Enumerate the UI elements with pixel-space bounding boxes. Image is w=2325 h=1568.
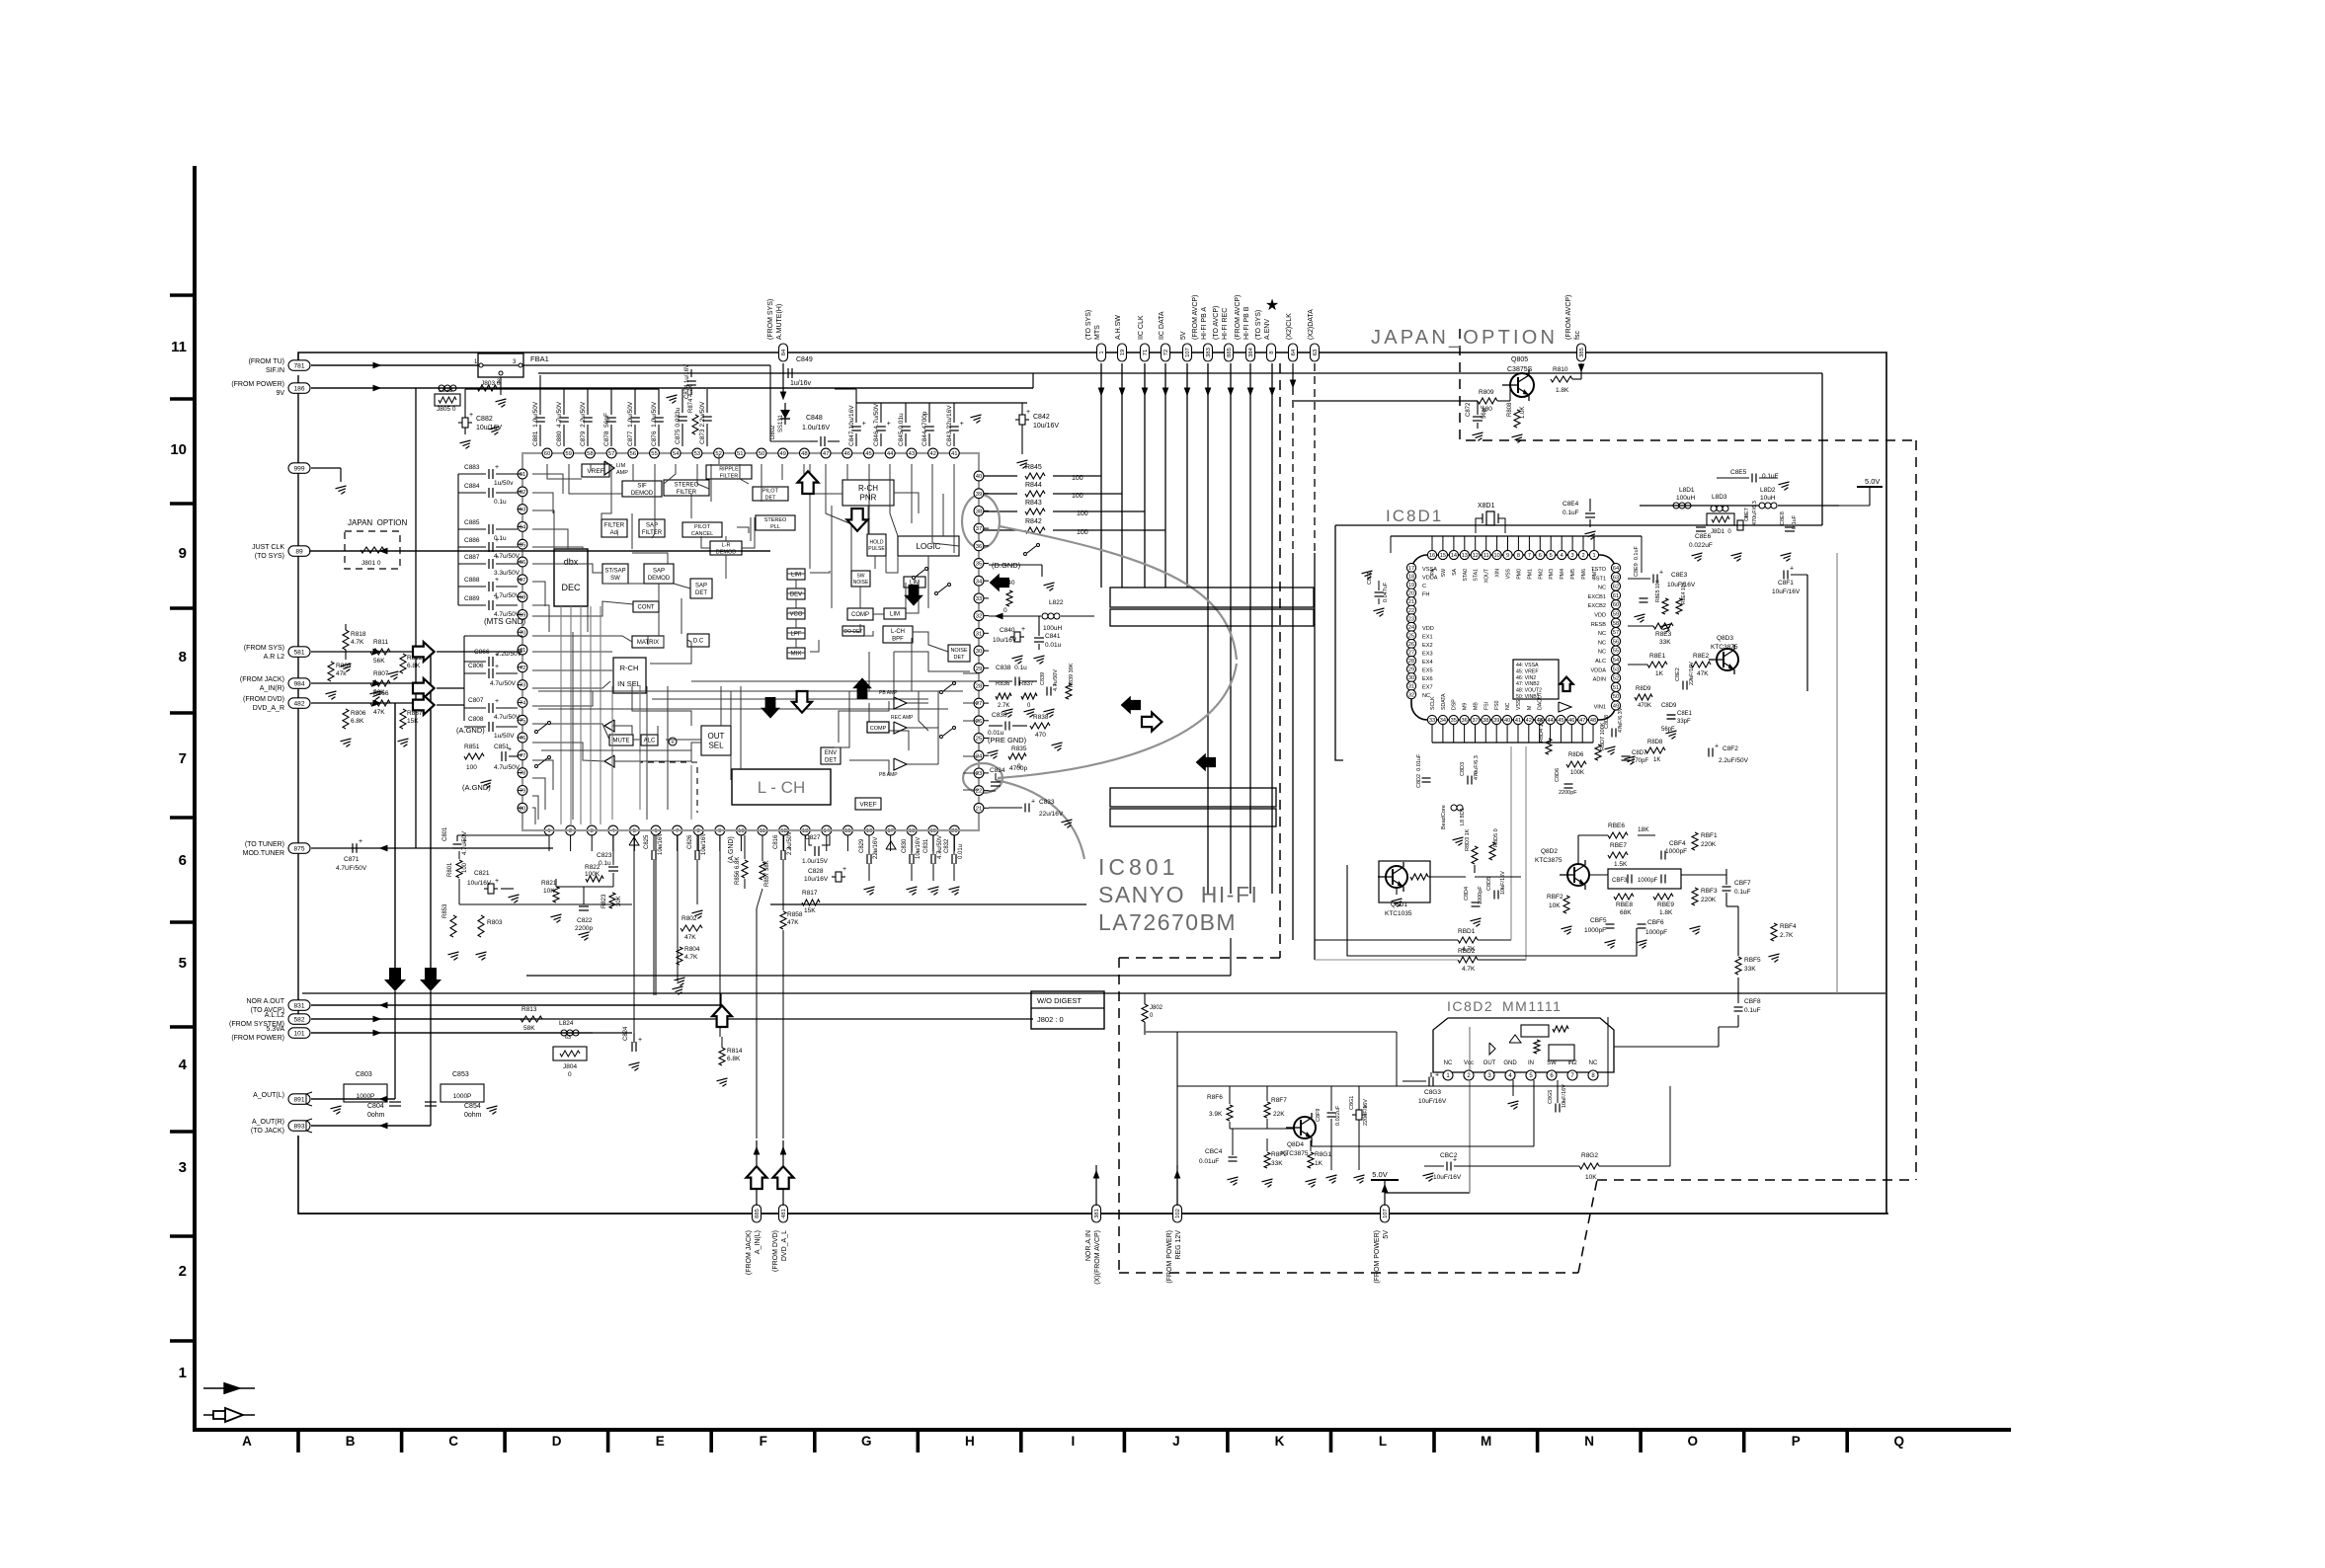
wire pin stub	[984, 807, 989, 809]
svg-text:REG 12V: REG 12V	[1175, 1230, 1182, 1260]
svg-text:C886: C886	[464, 537, 480, 544]
svg-text:47K: 47K	[787, 919, 799, 926]
svg-text:10u/16V: 10u/16V	[993, 637, 1017, 644]
svg-text:30: 30	[976, 649, 983, 655]
IC801 pin 63	[518, 505, 527, 514]
block ENV DET	[821, 747, 841, 764]
svg-text:60: 60	[1613, 602, 1619, 608]
svg-text:75: 75	[520, 718, 526, 724]
connector 101 5.3VA	[288, 1028, 310, 1039]
svg-text:+: +	[887, 421, 891, 428]
svg-text:+: +	[495, 537, 499, 544]
IC801 pin 74	[518, 698, 527, 708]
svg-text:37: 37	[976, 526, 983, 532]
wire pin stub	[518, 596, 522, 598]
svg-text:C8G5: C8G5	[1548, 1090, 1554, 1104]
ground	[988, 750, 999, 753]
transistor Q8D1	[1379, 861, 1430, 902]
hollow arrow 885	[747, 1166, 767, 1189]
resistor R844	[1025, 491, 1045, 497]
svg-text:44: 44	[887, 451, 894, 457]
svg-text:22uF/16V: 22uF/16V	[1689, 662, 1695, 685]
wire	[859, 587, 861, 608]
inductor L823	[439, 385, 444, 391]
svg-text:885: 885	[1227, 348, 1233, 357]
svg-text:R838: R838	[1033, 714, 1049, 721]
wire	[1053, 510, 1145, 512]
ground	[341, 739, 352, 742]
svg-text:R840: R840	[1000, 580, 1015, 587]
svg-text:(FROM AVCP): (FROM AVCP)	[1192, 295, 1199, 340]
ruler tick bottom	[1742, 1430, 1746, 1452]
svg-text:47K: 47K	[373, 709, 385, 716]
capacitor C8E7	[1737, 520, 1743, 530]
svg-text:11: 11	[171, 339, 187, 355]
svg-text:MOD.TUNER: MOD.TUNER	[243, 850, 284, 857]
svg-text:10uH: 10uH	[1760, 495, 1776, 502]
svg-text:27: 27	[976, 701, 983, 707]
svg-text:L8D3: L8D3	[1712, 494, 1727, 501]
svg-text:NOISE: NOISE	[853, 580, 869, 586]
svg-text:(TO TUNER): (TO TUNER)	[245, 841, 284, 848]
svg-text:C801: C801	[442, 826, 448, 841]
wire pin stub	[518, 789, 522, 791]
svg-text:C874 1u/16V: C874 1u/16V	[684, 364, 690, 399]
IC8D1 pin 38	[1482, 715, 1490, 724]
svg-text:101: 101	[293, 1031, 304, 1038]
wire	[674, 584, 690, 588]
svg-text:+: +	[495, 554, 499, 561]
svg-text:10uF/16V: 10uF/16V	[1772, 588, 1801, 595]
svg-text:NC: NC	[1598, 631, 1606, 637]
IC801 pin 25	[974, 734, 984, 744]
svg-text:L - CH: L - CH	[758, 778, 806, 797]
svg-text:FILTER: FILTER	[642, 530, 663, 536]
IC8D1 pin 3	[1568, 550, 1577, 559]
svg-text:CBF7: CBF7	[1734, 880, 1751, 887]
svg-text:33: 33	[976, 596, 983, 602]
svg-text:C804: C804	[367, 1103, 384, 1110]
IC801 pin 11	[758, 825, 767, 835]
svg-text:50: VINB1: 50: VINB1	[1516, 694, 1540, 700]
wire	[725, 536, 727, 541]
capacitor C866	[464, 661, 486, 663]
resistor R8F7	[1264, 1102, 1270, 1118]
svg-text:C836: C836	[992, 712, 1007, 719]
wire	[311, 364, 478, 366]
svg-text:5.3VA: 5.3VA	[266, 1026, 284, 1033]
bus entry 385	[1577, 344, 1586, 361]
resistor RBE7	[1608, 852, 1628, 858]
capacitor C832	[951, 854, 953, 864]
svg-text:+: +	[1026, 409, 1030, 416]
IC801 pin 33	[974, 593, 984, 603]
IC801 pin 42	[928, 448, 938, 458]
svg-text:49: 49	[779, 451, 786, 457]
svg-text:A_OUT(R): A_OUT(R)	[252, 1119, 284, 1126]
gray loop annotation 2	[963, 763, 1002, 793]
svg-text:R836: R836	[996, 681, 1010, 687]
svg-text:76: 76	[520, 736, 526, 742]
IC801 pin 65	[518, 539, 527, 549]
wire pin stub	[783, 835, 785, 851]
svg-text:42: 42	[929, 451, 936, 457]
svg-text:33K: 33K	[1659, 639, 1671, 646]
block L-CH	[732, 769, 831, 805]
svg-text:12: 12	[1473, 553, 1479, 559]
svg-text:L8D1: L8D1	[1679, 487, 1695, 494]
wire	[612, 726, 632, 735]
svg-text:CBF6: CBF6	[1647, 919, 1664, 926]
svg-text:45: 45	[865, 451, 872, 457]
wire	[1806, 575, 1808, 691]
svg-text:GND: GND	[1503, 1060, 1517, 1066]
wire	[826, 464, 849, 523]
svg-text:J801 0: J801 0	[361, 560, 381, 567]
svg-text:R8D3 1K: R8D3 1K	[1465, 828, 1471, 851]
svg-text:893: 893	[293, 1124, 304, 1131]
block L-R DEMOD	[710, 541, 742, 555]
svg-text:R804: R804	[684, 946, 700, 953]
dashed left lower	[1118, 958, 1120, 1273]
wire arrow	[1228, 388, 1233, 395]
svg-text:R808: R808	[1507, 402, 1513, 417]
block COMP small	[867, 722, 889, 733]
wire pin stub	[518, 719, 522, 721]
wire	[532, 547, 583, 549]
svg-text:9V: 9V	[276, 390, 284, 397]
resistor R807	[370, 680, 390, 686]
wire	[850, 523, 852, 571]
bus entry 885	[1225, 344, 1234, 361]
svg-text:M9: M9	[1463, 703, 1469, 710]
wire pin stub	[868, 835, 870, 851]
svg-text:31: 31	[976, 631, 983, 637]
resistor R804	[677, 947, 682, 965]
dashed diagonal	[1578, 1180, 1597, 1273]
svg-text:(FROM DVD): (FROM DVD)	[772, 1230, 779, 1272]
svg-text:NC: NC	[1589, 1060, 1598, 1066]
bus entry 72	[1162, 344, 1170, 361]
svg-text:63: 63	[1313, 350, 1319, 355]
svg-text:R8G2: R8G2	[1581, 1152, 1598, 1159]
wire top cap rail	[465, 388, 659, 390]
wire arrow	[1119, 388, 1124, 395]
svg-text:R844: R844	[1025, 482, 1042, 489]
svg-text:C879 2.2u/50V: C879 2.2u/50V	[580, 401, 587, 446]
IC801 pin 72	[518, 663, 527, 672]
wire	[906, 583, 919, 613]
resistor R806	[343, 709, 349, 729]
wire	[1294, 400, 1478, 402]
svg-text:R8E5 10K: R8E5 10K	[1655, 580, 1661, 602]
block VREF	[582, 464, 609, 477]
svg-text:13: 13	[1462, 553, 1468, 559]
switch	[943, 729, 952, 736]
connector 875 MOD.TUNER	[288, 843, 310, 854]
block VCO	[787, 608, 805, 619]
wire pin stub	[984, 720, 989, 722]
svg-text:0.1uF: 0.1uF	[1744, 1007, 1761, 1014]
resistor R809	[1478, 398, 1497, 404]
connector 891 A_OUT(L)	[288, 1094, 310, 1105]
svg-text:10K: 10K	[543, 888, 555, 895]
dashed box right edge	[1915, 440, 1917, 1180]
svg-text:DET: DET	[954, 655, 966, 661]
ruler tick left	[170, 920, 195, 924]
block STEREO PLL	[756, 515, 795, 530]
wire	[867, 506, 869, 534]
svg-text:VDDA: VDDA	[1590, 667, 1606, 673]
block DO DET	[842, 626, 864, 636]
wire pin stub	[697, 835, 699, 851]
capacitor CBF4	[1660, 851, 1662, 860]
svg-text:57: 57	[1613, 630, 1619, 636]
IC8D2 pin 4	[1505, 1070, 1515, 1080]
capacitor C8E8	[1785, 526, 1795, 528]
svg-text:+: +	[495, 698, 499, 705]
svg-text:CBC4: CBC4	[1205, 1148, 1223, 1155]
wire A_OUT L	[311, 1098, 395, 1100]
IC8D2 body	[1433, 1018, 1614, 1072]
wire bottom rail gray	[538, 829, 963, 831]
capacitor C842	[1019, 415, 1025, 425]
ruler tick left	[170, 397, 195, 401]
svg-text:R810: R810	[1553, 366, 1568, 373]
wire pin stub	[984, 615, 989, 617]
IC8D1 pin 20	[1406, 588, 1415, 597]
IC8D1 pin 57	[1611, 628, 1620, 637]
svg-text:15K: 15K	[804, 907, 816, 914]
hollow arrow A_IN	[413, 678, 435, 698]
wire bus vertical	[782, 363, 784, 395]
svg-text:NOR A.OUT: NOR A.OUT	[246, 998, 284, 1005]
wire	[464, 635, 522, 637]
svg-text:PA: PA	[1430, 568, 1436, 575]
connector 581 A.R L2	[288, 647, 310, 658]
svg-text:NC: NC	[1598, 586, 1606, 591]
svg-text:0: 0	[568, 1071, 572, 1078]
ground	[579, 932, 590, 935]
ruler tick bottom	[1845, 1430, 1849, 1452]
svg-text:HI-FI REC: HI-FI REC	[1222, 308, 1229, 340]
svg-text:25: 25	[976, 737, 983, 743]
svg-text:6: 6	[179, 852, 187, 869]
wire pin stub	[984, 667, 989, 669]
dashed box bottom right	[1597, 1179, 1916, 1181]
wire	[868, 464, 870, 534]
svg-text:L824: L824	[559, 1020, 574, 1027]
svg-text:SANYO HI-FI: SANYO HI-FI	[1098, 882, 1258, 907]
wire	[781, 464, 783, 480]
capacitor C821	[488, 884, 494, 894]
solid arrow up	[852, 677, 872, 699]
svg-text:2.2uF/50V: 2.2uF/50V	[1719, 757, 1749, 764]
svg-text:R835: R835	[1011, 745, 1027, 752]
IC801 pin 27	[974, 698, 984, 708]
resistor R822	[586, 876, 603, 882]
svg-text:L-CH: L-CH	[891, 629, 905, 635]
bus entry 8	[1267, 344, 1276, 361]
svg-text:270pF: 270pF	[1632, 758, 1648, 764]
svg-text:0ohm: 0ohm	[464, 1112, 482, 1119]
svg-text:50: 50	[759, 451, 765, 457]
IC8D1 pin 52	[1611, 673, 1620, 682]
triangle op	[1559, 702, 1571, 712]
svg-text:4.7UF/50V: 4.7UF/50V	[336, 865, 367, 872]
resistor R845	[1025, 473, 1045, 479]
svg-text:EX1: EX1	[1422, 634, 1433, 640]
pin function table	[1513, 660, 1559, 699]
IC8D1 pin 7	[1525, 550, 1534, 559]
svg-text:4.7K: 4.7K	[351, 639, 364, 646]
wire JUST CLK	[309, 550, 770, 552]
capacitor C887	[458, 563, 486, 565]
IC801 pin 50	[757, 448, 766, 458]
svg-text:PULSE: PULSE	[868, 546, 885, 552]
svg-text:1K: 1K	[1653, 757, 1660, 763]
hollow arrow DVD	[413, 695, 435, 715]
svg-text:C: C	[448, 1434, 458, 1449]
capacitor C830	[909, 854, 911, 864]
wire	[532, 564, 602, 573]
resistor R801	[456, 860, 462, 878]
wire pin stub	[518, 737, 522, 739]
capacitor C8G3	[1428, 1077, 1430, 1086]
svg-text:59: 59	[565, 451, 572, 457]
capacitor C8G5	[1555, 1104, 1557, 1113]
svg-text:CBF8: CBF8	[1744, 998, 1761, 1005]
wire	[587, 606, 589, 632]
svg-text:RBE8: RBE8	[1616, 902, 1633, 908]
resistor RBF3	[1692, 888, 1698, 905]
svg-text:1000P: 1000P	[453, 1093, 472, 1100]
wire	[541, 749, 691, 751]
svg-text:R8D4 10K: R8D4 10K	[1539, 717, 1545, 743]
IC8D1 pin 25	[1406, 631, 1415, 640]
IC801 pin 73	[518, 680, 527, 690]
ruler tick bottom	[1226, 1430, 1230, 1452]
wire outer box ic8d1 top	[1335, 524, 1822, 526]
IC801 pin 10	[737, 825, 747, 835]
ground	[326, 691, 337, 694]
wire pin stub	[518, 807, 522, 809]
capacitor C8E3	[1652, 575, 1654, 584]
resistor R8G1	[1308, 1152, 1314, 1168]
bus entry 63	[1311, 344, 1320, 361]
svg-text:SDATA: SDATA	[1441, 693, 1447, 710]
wire	[979, 493, 1017, 495]
svg-text:D.C: D.C	[693, 639, 704, 645]
svg-text:OUT: OUT	[708, 732, 725, 741]
svg-text:23: 23	[1408, 616, 1414, 622]
svg-text:56pF: 56pF	[1482, 405, 1487, 419]
bus bar 1a	[1110, 588, 1314, 607]
svg-text:R823: R823	[601, 894, 607, 908]
svg-text:J805 0: J805 0	[437, 406, 456, 413]
svg-text:FBA1: FBA1	[530, 354, 549, 363]
wire q8d4 top	[1177, 1085, 1608, 1087]
svg-text:STA1: STA1	[1474, 569, 1480, 582]
svg-text:C830: C830	[902, 838, 908, 853]
svg-text:C883: C883	[464, 464, 480, 471]
svg-text:RBF1: RBF1	[1701, 832, 1718, 839]
capacitor C8D6	[1564, 783, 1573, 785]
svg-text:DEMOD: DEMOD	[648, 576, 671, 582]
block MUTE	[609, 735, 633, 745]
wire up 102	[1176, 1165, 1178, 1206]
svg-text:MB: MB	[1474, 702, 1480, 710]
svg-text:47: 47	[1579, 718, 1585, 724]
svg-text:IC8D1: IC8D1	[1386, 507, 1443, 525]
IC801 pin 34	[974, 576, 984, 586]
svg-text:1000pF: 1000pF	[1645, 929, 1667, 936]
wire	[532, 582, 545, 606]
svg-text:W/O DIGEST: W/O DIGEST	[1037, 996, 1082, 1005]
svg-text:+: +	[960, 421, 964, 428]
wire	[750, 517, 752, 541]
ruler tick bottom	[1123, 1430, 1127, 1452]
svg-text:C8D7: C8D7	[1632, 750, 1647, 756]
IC801 pin 35	[974, 559, 984, 569]
bus entry 84	[779, 344, 788, 361]
capacitor C888	[458, 586, 486, 588]
svg-text:47: VINB2: 47: VINB2	[1516, 681, 1540, 687]
svg-text:C876 1.0u/50V: C876 1.0u/50V	[651, 401, 658, 446]
capacitor C871	[352, 843, 354, 853]
resistor R8E5	[1662, 598, 1668, 614]
wire pin stub	[518, 561, 522, 563]
svg-text:JAPAN OPTION: JAPAN OPTION	[348, 518, 408, 527]
wire	[691, 680, 979, 682]
svg-text:35: 35	[976, 562, 983, 568]
wire	[890, 464, 898, 536]
bus entry bottom 481	[779, 1205, 788, 1222]
svg-text:1K: 1K	[1315, 1160, 1323, 1167]
svg-text:J802: J802	[1150, 1005, 1163, 1011]
wire	[1478, 939, 1511, 941]
svg-text:41: 41	[951, 451, 958, 457]
svg-text:25: 25	[1408, 633, 1414, 639]
IC8D1 pin 34	[1438, 715, 1447, 724]
wire	[590, 606, 592, 824]
IC8D1 pin 56	[1611, 637, 1620, 646]
svg-text:C829: C829	[859, 838, 865, 853]
wire arrow	[1247, 388, 1252, 395]
svg-text:C803: C803	[356, 1071, 372, 1078]
wire	[810, 571, 830, 573]
svg-text:A.MUTE(H): A.MUTE(H)	[776, 304, 783, 340]
svg-text:58: 58	[1613, 621, 1619, 627]
wire	[740, 686, 742, 769]
svg-text:61: 61	[1613, 593, 1619, 599]
capacitor C822	[579, 905, 589, 907]
IC8D1 pin 60	[1611, 600, 1620, 609]
svg-text:SW: SW	[1547, 1060, 1557, 1066]
wire	[538, 708, 948, 710]
wire	[667, 686, 669, 810]
svg-text:2: 2	[179, 1263, 187, 1280]
ceramic filter FBA1	[478, 353, 523, 377]
wire bus vertical	[1230, 363, 1232, 894]
svg-text:KTC3875: KTC3875	[1535, 857, 1563, 864]
block COMP	[847, 608, 873, 620]
svg-text:VREF: VREF	[587, 468, 603, 475]
capacitor C829	[866, 854, 868, 864]
ground	[370, 691, 381, 694]
svg-text:70: 70	[520, 630, 526, 636]
svg-text:IIC CLK: IIC CLK	[1138, 315, 1145, 340]
